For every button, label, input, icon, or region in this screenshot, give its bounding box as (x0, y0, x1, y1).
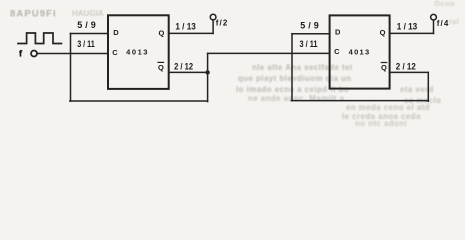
svg-text:ne ande anoc. Mamilt a: ne ande anoc. Mamilt a (248, 94, 345, 103)
wire f terminal to U1 pin C (37, 53, 108, 55)
wire U2 feedback left vertical (291, 34, 293, 101)
wire U1 pin D (71, 33, 109, 35)
svg-text:D: D (335, 28, 341, 37)
wire U1 pin Q output (169, 32, 213, 34)
wire U2 pin D (292, 33, 330, 35)
wire U1 pin Qbar output (169, 71, 208, 73)
junction dot node A (205, 70, 209, 74)
bleed-through text artifacts (scan) (236, 0, 459, 128)
svg-text:5 / 9: 5 / 9 (77, 20, 96, 30)
svg-text:5 / 9: 5 / 9 (300, 20, 319, 30)
wire U2 pin Q output (390, 32, 434, 34)
flip-flop U1 (4013) box (108, 15, 169, 89)
svg-text:3 / 11: 3 / 11 (77, 39, 95, 49)
wire f/4 terminal stem (433, 20, 435, 34)
U1 pin Qbar overline (158, 61, 164, 63)
svg-text:tal: tal (449, 17, 459, 26)
svg-text:que playt blevdiuom qia un: que playt blevdiuom qia un (238, 74, 352, 83)
svg-text:Q: Q (380, 28, 386, 37)
svg-text:4013: 4013 (126, 48, 147, 57)
svg-text:2 / 12: 2 / 12 (174, 61, 193, 71)
wire node A to U2 pin C (208, 52, 330, 54)
svg-text:en meda ceno el atd: en meda ceno el atd (346, 103, 430, 112)
svg-text:no ntc adoni: no ntc adoni (355, 119, 407, 127)
svg-text:Q: Q (158, 28, 164, 37)
svg-text:4013: 4013 (349, 47, 370, 56)
wire U2 pin Qbar output (390, 71, 429, 73)
svg-text:HAUGIA: HAUGIA (72, 9, 104, 18)
wire node A vertical (U1 Qbar to U2 clock) (207, 53, 209, 101)
input square-wave symbol (18, 33, 61, 44)
wire U1 feedback left vertical (70, 34, 72, 102)
terminal f/2 circle (210, 14, 216, 20)
svg-text:Q: Q (158, 63, 164, 72)
wire U2 feedback right vertical (427, 72, 429, 101)
svg-text:1 / 13: 1 / 13 (175, 22, 196, 32)
svg-text:nle alte Ana seclfade tel: nle alte Ana seclfade tel (252, 63, 353, 72)
svg-text:C: C (112, 48, 118, 57)
svg-text:2 / 12: 2 / 12 (396, 62, 416, 72)
flip-flop U2 (4013) box (330, 15, 390, 88)
svg-text:Ocno: Ocno (434, 0, 455, 8)
wire f/2 terminal stem (212, 20, 214, 34)
svg-text:C: C (334, 47, 340, 56)
svg-text:1 / 13: 1 / 13 (397, 22, 418, 32)
svg-text:8APU9FI: 8APU9FI (10, 9, 57, 20)
svg-text:D: D (113, 28, 119, 37)
wire U2 feedback bottom (291, 100, 428, 102)
svg-text:Q: Q (381, 63, 387, 72)
wire U1 feedback bottom (70, 100, 208, 102)
terminal f/4 circle (431, 14, 437, 20)
U2 pin Qbar overline (381, 62, 386, 64)
svg-text:3 / 11: 3 / 11 (300, 39, 318, 49)
input terminal f circle (31, 51, 37, 57)
